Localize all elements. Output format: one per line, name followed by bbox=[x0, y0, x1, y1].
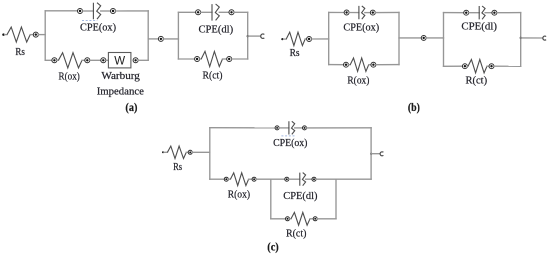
mid wire box1 to node (a) bbox=[148, 38, 158, 40]
node after Rs (c) bbox=[188, 150, 192, 154]
junction dot right edge (a) bbox=[247, 35, 249, 37]
node before Warburg (a) bbox=[101, 58, 106, 63]
stub wire to open terminal (b) bbox=[521, 37, 543, 39]
CPE CPE(dl) symbol (c) bbox=[300, 173, 306, 186]
box1 right edge wire (b) bbox=[398, 12, 400, 64]
svg-text:CPE(dl): CPE(dl) bbox=[461, 21, 497, 33]
resistor R(ct) (b) bbox=[468, 60, 487, 73]
wire node to R(ox) (c) bbox=[228, 178, 230, 180]
junction dot right edge (c) bbox=[370, 153, 372, 155]
node bottom-left box2 (a) bbox=[195, 57, 200, 62]
Warburg element W box (a) bbox=[108, 53, 130, 68]
wire R(ct) to node (b) bbox=[487, 65, 489, 67]
node top-right box2 (b) bbox=[492, 10, 497, 15]
wire terminal to Rs (b) bbox=[284, 38, 287, 40]
box1 right edge wire (a) bbox=[147, 11, 149, 61]
wire R(ox) to node (c) bbox=[249, 178, 253, 180]
box2 bottom wire right (b) bbox=[494, 65, 521, 67]
wire node to CPE(ox) (c) bbox=[279, 127, 289, 129]
nested box bottom wire right (c) bbox=[317, 218, 336, 220]
svg-text:CPE(ox): CPE(ox) bbox=[80, 21, 116, 33]
box2 top wire right (b) bbox=[497, 12, 521, 14]
wire node to R(ox) (a) bbox=[57, 59, 59, 61]
nested box bottom wire left (c) bbox=[271, 218, 286, 220]
box2 top wire left (b) bbox=[444, 12, 464, 14]
box2 right edge wire (b) bbox=[520, 13, 522, 67]
wire Rs to node (a) bbox=[30, 34, 33, 36]
wire terminal to Rs (a) bbox=[5, 34, 7, 36]
box1 left edge wire (a) bbox=[44, 11, 46, 61]
CPE CPE(ox) symbol (c) bbox=[289, 121, 295, 134]
junction dot right edge (b) bbox=[520, 37, 522, 39]
mid wire node to box2 (a) bbox=[163, 38, 178, 40]
wire CPE(dl) to node (a) bbox=[219, 11, 229, 13]
node after R(ox) (b) bbox=[371, 62, 376, 67]
node before CPE(dl) (c) bbox=[285, 177, 289, 181]
box1 top-left wire (a) bbox=[45, 10, 77, 12]
node after Rs (a) bbox=[33, 32, 38, 37]
svg-text:CPE(dl): CPE(dl) bbox=[283, 190, 318, 202]
svg-text:W: W bbox=[114, 55, 125, 67]
node top-left CPE(ox) (c) bbox=[275, 126, 279, 130]
node top-right box1 (a) bbox=[111, 9, 116, 14]
wire node to CPE(dl) (c) bbox=[289, 178, 300, 180]
resistor R(ox) (a) bbox=[58, 53, 82, 68]
svg-text:R(ct): R(ct) bbox=[203, 69, 223, 81]
box1 bottom wire left (b) bbox=[329, 64, 344, 66]
mid wire node to box2 (b) bbox=[426, 37, 443, 39]
wire node to box1 (b) bbox=[312, 38, 329, 40]
open terminal C (a) bbox=[261, 34, 265, 38]
CPE CPE(dl) symbol (b) bbox=[479, 6, 485, 19]
open terminal C (c) bbox=[380, 152, 383, 156]
wire node to CPE(dl) (a) bbox=[201, 11, 212, 13]
box1 bottom wire right (b) bbox=[376, 64, 399, 66]
svg-text:(a): (a) bbox=[125, 102, 137, 114]
svg-text:CPE(ox): CPE(ox) bbox=[273, 137, 308, 149]
svg-text:(c): (c) bbox=[267, 241, 279, 253]
wire node to R(ox) (b) bbox=[348, 64, 350, 66]
dashed underline under CPE(ox) (a) bbox=[82, 20, 97, 22]
svg-text:Impedance: Impedance bbox=[97, 86, 144, 98]
box1 left edge wire (b) bbox=[328, 12, 330, 64]
box2 top-right wire (a) bbox=[234, 11, 248, 13]
node bottom-left box1 (a) bbox=[52, 58, 57, 63]
node between boxes (b) bbox=[421, 35, 426, 40]
wire R(ox) to node (b) bbox=[369, 64, 371, 66]
svg-text:Rs: Rs bbox=[290, 47, 300, 59]
node top-left box1 (a) bbox=[78, 9, 83, 14]
wire W to box1 right (a) bbox=[138, 59, 148, 61]
node top-right CPE(ox) (c) bbox=[303, 126, 307, 130]
outer box left edge wire (c) bbox=[209, 128, 211, 180]
resistor Rs (b) bbox=[286, 32, 305, 45]
svg-text:CPE(dl): CPE(dl) bbox=[198, 24, 233, 36]
node after CPE(dl) (c) bbox=[312, 177, 316, 181]
svg-text:R(ct): R(ct) bbox=[286, 228, 307, 240]
resistor R(ct) (a) bbox=[201, 51, 222, 66]
terminal dot left (b) bbox=[281, 38, 283, 40]
mid wire box1 to node (b) bbox=[399, 37, 421, 39]
node top-left box2 (a) bbox=[196, 10, 201, 15]
node after R(ox) (c) bbox=[252, 177, 256, 181]
nested box left edge wire (c) bbox=[270, 179, 272, 219]
resistor R(ct) (c) bbox=[291, 212, 310, 225]
wire CPE(ox) to node (c) bbox=[295, 127, 303, 129]
wire R(ct) to node (c) bbox=[310, 218, 313, 220]
node after R(ct) (a) bbox=[227, 57, 232, 62]
svg-text:(b): (b) bbox=[408, 102, 420, 114]
svg-text:CPE(ox): CPE(ox) bbox=[343, 22, 379, 34]
box1 top wire left (b) bbox=[329, 11, 345, 13]
wire R(ct) to node (a) bbox=[223, 58, 227, 60]
box2 top-left wire (a) bbox=[178, 11, 195, 13]
wire CPE(ox) to node (b) bbox=[365, 12, 371, 14]
node after R(ox) (a) bbox=[85, 58, 90, 63]
box2 bottom wire left (b) bbox=[444, 65, 463, 67]
wire node to nested box (c) bbox=[256, 178, 285, 180]
svg-text:R(ct): R(ct) bbox=[466, 74, 488, 86]
box1 top-right wire (a) bbox=[116, 10, 149, 12]
svg-text:R(ox): R(ox) bbox=[228, 188, 251, 200]
outer box top wire right (c) bbox=[307, 127, 372, 129]
CPE CPE(ox) symbol (b) bbox=[359, 6, 365, 19]
node top-left box1 (b) bbox=[344, 10, 349, 15]
wire CPE(ox) to node (a) bbox=[101, 10, 111, 12]
outer box top wire left (c) bbox=[210, 127, 275, 129]
wire Rs to node (c) bbox=[186, 151, 188, 153]
box2 bottom-right wire (a) bbox=[232, 58, 248, 60]
outer box bottom wire left (c) bbox=[210, 178, 224, 180]
node after R(ct) (b) bbox=[489, 64, 494, 69]
wire node to CPE(ox) (b) bbox=[349, 12, 359, 14]
box1 bottom-left wire (a) bbox=[45, 59, 52, 61]
wire node to W box (a) bbox=[106, 59, 109, 61]
wire node to R(ct) (b) bbox=[466, 65, 469, 67]
box2 left edge wire (b) bbox=[443, 13, 445, 67]
wire node to R(ct) (c) bbox=[290, 218, 292, 220]
resistor R(ox) (b) bbox=[350, 58, 369, 71]
outer box right edge wire (c) bbox=[370, 128, 372, 180]
wire node to outer box (c) bbox=[192, 151, 210, 153]
wire node to box1 (a) bbox=[38, 34, 45, 36]
wire Rs to node (b) bbox=[305, 38, 307, 40]
wire between nodes (a) bbox=[90, 59, 101, 61]
node before R(ct) (c) bbox=[286, 217, 290, 221]
node bottom-left box1 (b) bbox=[344, 62, 349, 67]
svg-text:Warburg: Warburg bbox=[101, 70, 140, 82]
svg-text:Rs: Rs bbox=[15, 46, 25, 58]
terminal dot left (a) bbox=[2, 33, 5, 36]
node after Warburg (a) bbox=[133, 58, 138, 63]
terminal dot left (c) bbox=[162, 151, 164, 153]
resistor Rs (a) bbox=[7, 27, 30, 42]
nested box right edge wire (c) bbox=[335, 179, 337, 219]
wire node to CPE(dl) (b) bbox=[469, 12, 480, 14]
dashed underline under CPE(ox) (c) bbox=[281, 135, 295, 137]
resistor R(ox) (c) bbox=[230, 173, 248, 186]
node top-right box1 (b) bbox=[370, 10, 375, 15]
CPE CPE(dl) symbol (a) bbox=[212, 4, 219, 21]
node after R(ct) (c) bbox=[313, 217, 317, 221]
node between boxes (a) bbox=[158, 36, 163, 41]
box2 right edge wire (a) bbox=[247, 12, 249, 59]
wire terminal to Rs (c) bbox=[164, 151, 167, 153]
bottom row wire to right edge (c) bbox=[316, 178, 371, 180]
wire node to CPE(ox) (a) bbox=[83, 10, 94, 12]
box1 top wire right (b) bbox=[375, 11, 399, 13]
svg-text:R(ox): R(ox) bbox=[347, 74, 369, 86]
CPE CPE(ox) symbol (a) bbox=[93, 3, 100, 20]
resistor Rs (c) bbox=[167, 146, 186, 158]
node after Rs (b) bbox=[307, 37, 312, 42]
svg-text:R(ox): R(ox) bbox=[59, 70, 81, 82]
node bottom-left box2 (b) bbox=[462, 64, 467, 69]
stub wire to open terminal (a) bbox=[248, 35, 261, 37]
wire CPE(dl) to node (c) bbox=[306, 178, 312, 180]
node before R(ox) (c) bbox=[224, 177, 228, 181]
wire node to R(ct) (a) bbox=[200, 58, 202, 60]
node top-right box2 (a) bbox=[229, 10, 234, 15]
wire R(ox) to node (a) bbox=[82, 59, 85, 61]
open terminal C (b) bbox=[543, 36, 546, 40]
box2 left edge wire (a) bbox=[177, 12, 179, 59]
svg-text:Rs: Rs bbox=[173, 161, 182, 173]
wire CPE(dl) to node (b) bbox=[485, 12, 492, 14]
stub wire to open terminal (c) bbox=[371, 153, 380, 155]
node top-left box2 (b) bbox=[464, 10, 469, 15]
box2 bottom-left wire (a) bbox=[178, 58, 194, 60]
